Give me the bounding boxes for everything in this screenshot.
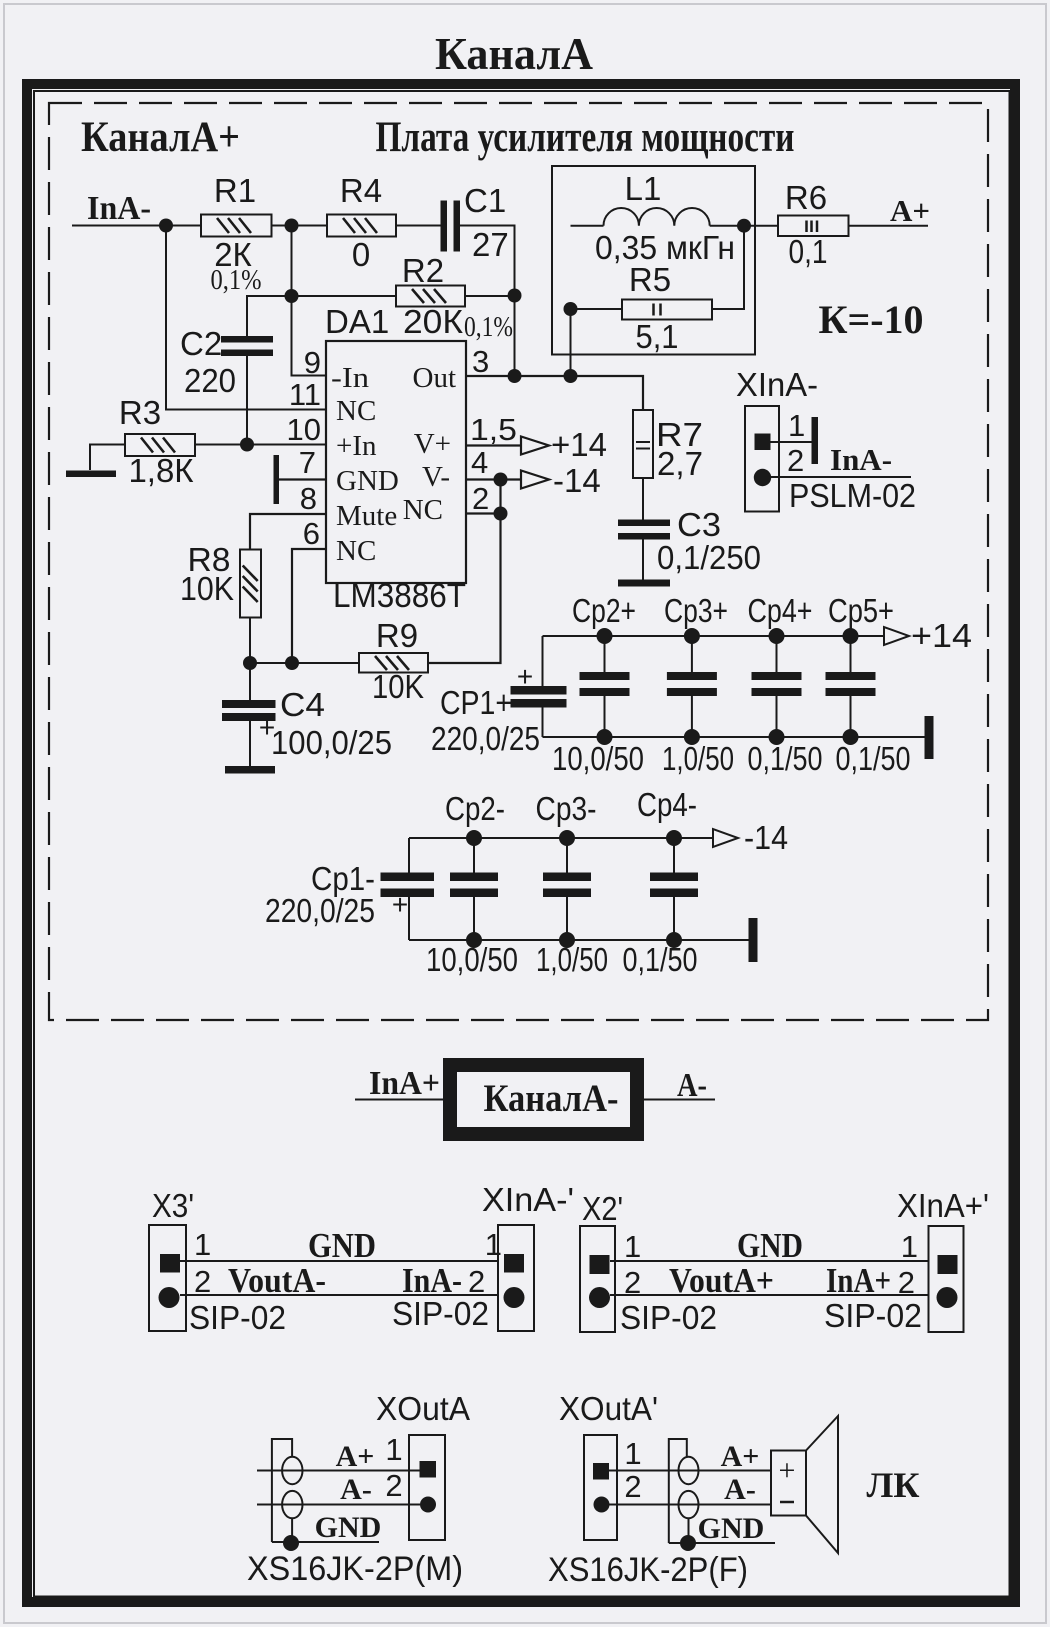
svg-text:GND: GND — [308, 1226, 376, 1265]
capacitor Cp3- — [566, 838, 568, 873]
svg-text:1: 1 — [194, 1227, 211, 1262]
svg-text:Cp4-: Cp4- — [637, 786, 697, 823]
pin 1 square XOutA — [420, 1461, 437, 1478]
wire +In row — [195, 444, 326, 446]
svg-text:C1: C1 — [464, 182, 506, 219]
wire R4 to C1 — [396, 225, 441, 227]
pin 2 circle XOutA — [420, 1497, 436, 1513]
svg-text:C2: C2 — [180, 325, 222, 362]
svg-text:20К: 20К — [403, 303, 464, 340]
svg-text:XInA-: XInA- — [736, 366, 818, 403]
svg-text:Cp2-: Cp2- — [445, 790, 505, 827]
wire Out up into box — [570, 309, 572, 376]
svg-text:SIP-02: SIP-02 — [620, 1299, 717, 1336]
svg-text:4: 4 — [471, 445, 488, 480]
svg-text:R4: R4 — [340, 172, 382, 209]
svg-text:V-: V- — [422, 461, 450, 493]
wire C4 to ground — [249, 721, 251, 766]
node junction R5-L1 left — [564, 302, 578, 316]
wire V- pin — [466, 478, 521, 480]
svg-text:PSLM-02: PSLM-02 — [789, 477, 916, 514]
svg-text:+: + — [779, 1454, 796, 1487]
node junction InA- — [159, 219, 173, 233]
wire V+ pin — [466, 444, 521, 446]
arrow -14 rail — [713, 829, 738, 847]
wire A- — [644, 1099, 715, 1101]
wire to R9 — [250, 662, 359, 664]
svg-text:LM3886T: LM3886T — [333, 577, 466, 615]
speaker horn — [806, 1416, 838, 1553]
svg-text:0,1%: 0,1% — [464, 312, 513, 343]
svg-text:A+: A+ — [336, 1440, 375, 1473]
svg-text:КаналА+: КаналА+ — [81, 114, 240, 161]
svg-text:+14: +14 — [911, 617, 972, 654]
wire A+ XOutA — [257, 1470, 420, 1472]
svg-text:2: 2 — [468, 1264, 485, 1299]
svg-text:Mute: Mute — [336, 500, 397, 532]
svg-text:-In: -In — [331, 362, 370, 394]
wire VoutA+ to InA+ — [610, 1294, 928, 1296]
node junction R2-C1 — [508, 289, 522, 303]
svg-text:5,1: 5,1 — [636, 318, 679, 355]
wire GND XOutA' — [669, 1542, 775, 1544]
ground R3 — [66, 471, 116, 478]
svg-text:VoutA-: VoutA- — [228, 1261, 326, 1300]
svg-text:A-: A- — [724, 1473, 756, 1506]
svg-text:10K: 10K — [372, 668, 424, 705]
svg-text:10K: 10K — [180, 570, 234, 607]
capacitor C1 — [441, 201, 448, 252]
svg-text:GND: GND — [336, 465, 399, 497]
wire C2 bottom to +In — [246, 356, 248, 445]
capacitor CP1+ — [542, 636, 544, 686]
svg-text:NC: NC — [403, 494, 443, 526]
svg-text:V+: V+ — [414, 428, 451, 460]
svg-text:C3: C3 — [677, 506, 721, 543]
svg-text:GND: GND — [737, 1226, 803, 1265]
pin 2 circle X2' — [589, 1287, 610, 1308]
svg-text:0,1/250: 0,1/250 — [657, 539, 761, 576]
female socket shell XS16JK-2P(F) — [669, 1439, 687, 1543]
svg-text:0,1/50: 0,1/50 — [836, 740, 911, 777]
wire R1 junction down — [291, 226, 293, 297]
wire step to C2 top — [247, 296, 292, 336]
svg-text:R2: R2 — [402, 252, 444, 289]
svg-text:11: 11 — [289, 377, 321, 412]
svg-text:2: 2 — [787, 443, 804, 478]
capacitor C4 — [249, 663, 251, 700]
wire to R2 left — [292, 295, 397, 297]
wire C1 right, corner down to R2/Out — [460, 226, 515, 377]
svg-text:27: 27 — [472, 226, 509, 263]
svg-text:1,0/50: 1,0/50 — [536, 941, 608, 978]
wire GND pin — [279, 478, 326, 480]
wire InA+ — [355, 1099, 443, 1101]
pin 1 square X3' — [160, 1254, 180, 1273]
svg-text:1: 1 — [624, 1436, 641, 1471]
pin 2 circle XOutA' — [594, 1497, 610, 1513]
svg-text:L1: L1 — [625, 170, 662, 207]
svg-text:8: 8 — [300, 481, 317, 516]
svg-text:10,0/50: 10,0/50 — [552, 740, 644, 777]
svg-text:10: 10 — [287, 412, 321, 447]
svg-text:Cp3+: Cp3+ — [664, 592, 728, 629]
svg-text:CP1+: CP1+ — [440, 684, 512, 721]
svg-text:Cp3-: Cp3- — [536, 790, 597, 827]
svg-text:1,5: 1,5 — [470, 412, 517, 447]
wire Out pin to R7 corner — [466, 376, 643, 410]
pin 2 circle X3' — [159, 1287, 180, 1308]
node junction L1-R5 right — [737, 219, 751, 233]
svg-text:1: 1 — [901, 1229, 918, 1264]
pin 1 square XInA-' — [504, 1254, 524, 1273]
svg-text:GND: GND — [698, 1512, 765, 1545]
svg-text:InA+: InA+ — [369, 1065, 440, 1102]
inductor L1 — [571, 225, 604, 227]
pin 2 circle XInA-' — [504, 1287, 525, 1308]
pin 1 square X2' — [590, 1255, 610, 1274]
svg-text:R6: R6 — [785, 179, 827, 216]
svg-text:1,0/50: 1,0/50 — [662, 740, 734, 777]
wire +14 bottom rail — [543, 736, 925, 738]
arrow -14 — [521, 471, 549, 489]
capacitor Cp2+ — [604, 636, 606, 672]
svg-text:VoutA+: VoutA+ — [669, 1261, 774, 1300]
dashed board border — [49, 103, 988, 1020]
pin 2 circle XInA+' — [937, 1287, 958, 1308]
svg-text:X2': X2' — [582, 1190, 623, 1227]
svg-text:X3': X3' — [152, 1187, 194, 1224]
capacitor Cp5+ — [850, 636, 852, 672]
resistor R8 — [240, 550, 261, 618]
L1 R5 output network box — [552, 166, 755, 355]
svg-text:-14: -14 — [744, 819, 788, 856]
wire A- XOutA — [257, 1504, 420, 1506]
node junction Out-L1 — [564, 369, 578, 383]
wire InA- to pin11 — [166, 226, 326, 410]
svg-text:C4: C4 — [280, 686, 325, 723]
svg-text:+: + — [392, 889, 408, 920]
wire XInA- pin2 — [771, 476, 911, 478]
svg-text:2: 2 — [898, 1265, 915, 1300]
wire A+ XOutA' — [609, 1470, 771, 1472]
wire GND XOutA — [272, 1541, 379, 1543]
svg-text:+In: +In — [336, 430, 377, 462]
svg-text:NC: NC — [336, 395, 376, 427]
svg-text:0: 0 — [352, 236, 370, 273]
svg-text:A+: A+ — [890, 193, 930, 228]
svg-text:NC: NC — [336, 535, 376, 567]
svg-text:+: + — [517, 661, 533, 692]
wire GND X2' to XInA+' — [610, 1260, 928, 1262]
capacitor Cp2- — [473, 838, 475, 873]
svg-text:0,1: 0,1 — [789, 233, 828, 270]
svg-text:0,1/50: 0,1/50 — [623, 941, 698, 978]
wire InA- input — [72, 225, 201, 227]
svg-text:0,1%: 0,1% — [211, 265, 262, 296]
svg-text:КаналА-: КаналА- — [484, 1077, 619, 1120]
wire -14 bottom rail — [409, 939, 749, 941]
svg-text:9: 9 — [304, 345, 321, 380]
svg-text:220: 220 — [184, 362, 236, 399]
svg-text:2: 2 — [385, 1468, 402, 1503]
wire R5 right up to L1 — [712, 226, 744, 309]
svg-text:220,0/25: 220,0/25 — [265, 892, 375, 929]
wire -14 top rail — [409, 837, 713, 839]
arrow +14 rail — [884, 627, 909, 645]
svg-text:1: 1 — [385, 1432, 402, 1467]
wire XInA- pin1 — [771, 441, 813, 443]
svg-text:XInA+': XInA+' — [897, 1187, 989, 1224]
wire R3 left to ground — [90, 445, 125, 471]
pin 2 circle XInA- — [754, 469, 771, 486]
svg-text:Плата усилителя мощности: Плата усилителя мощности — [376, 114, 795, 161]
wire R6 to A+ — [849, 225, 929, 227]
capacitor Cp3+ — [691, 636, 693, 672]
wire R1 to R4 — [272, 225, 328, 227]
node junction R8-C4 — [243, 656, 257, 670]
resistor R9 — [359, 653, 428, 673]
resistor R2 — [396, 286, 465, 307]
pin 1 square XOutA' — [593, 1463, 609, 1480]
rail terminator bar — [749, 918, 758, 962]
resistor R1 — [201, 215, 272, 237]
wire R5 left — [571, 308, 623, 310]
svg-text:1: 1 — [485, 1227, 502, 1262]
svg-text:-14: -14 — [553, 462, 601, 499]
node junction R1-R4 — [285, 219, 299, 233]
svg-text:R5: R5 — [629, 261, 671, 298]
svg-text:Cp5+: Cp5+ — [828, 592, 894, 629]
svg-text:InA-: InA- — [87, 190, 151, 227]
ground C4 — [225, 766, 275, 774]
svg-text:10,0/50: 10,0/50 — [426, 941, 518, 978]
node GND dot — [283, 1535, 299, 1551]
svg-text:100,0/25: 100,0/25 — [271, 724, 392, 761]
svg-text:R1: R1 — [214, 172, 256, 209]
node junction NC2 — [494, 507, 508, 521]
svg-text:A-: A- — [340, 1473, 372, 1506]
svg-text:InA-: InA- — [830, 442, 892, 477]
capacitor Cp4- — [673, 838, 675, 873]
node junction -In net — [285, 289, 299, 303]
capacitor C2 — [221, 336, 273, 343]
svg-text:+14: +14 — [551, 426, 607, 463]
wire A- XOutA' — [609, 1504, 771, 1506]
svg-text:1,8К: 1,8К — [128, 452, 194, 489]
svg-text:7: 7 — [299, 445, 316, 480]
svg-text:SIP-02: SIP-02 — [824, 1297, 922, 1334]
node junction Out-C1 — [508, 369, 522, 383]
arrow +14 — [521, 437, 549, 455]
speaker ЛК body — [771, 1451, 806, 1516]
svg-text:ЛК: ЛК — [867, 1465, 920, 1505]
pin 1 square XInA+' — [938, 1255, 958, 1274]
node junction V- — [494, 473, 508, 487]
svg-text:КаналА: КаналА — [435, 28, 593, 79]
svg-text:SIP-02: SIP-02 — [189, 1299, 286, 1336]
svg-text:XS16JK-2P(M): XS16JK-2P(M) — [247, 1550, 463, 1588]
pin 1 square XInA- — [755, 434, 771, 451]
svg-text:R9: R9 — [376, 617, 418, 654]
svg-text:Out: Out — [413, 362, 457, 394]
svg-text:XOutA': XOutA' — [559, 1390, 658, 1427]
svg-text:1: 1 — [788, 408, 805, 443]
rail terminator bar — [925, 716, 934, 759]
resistor R5 — [622, 300, 712, 320]
svg-text:A-: A- — [677, 1067, 707, 1104]
svg-text:XInA-': XInA-' — [482, 1181, 574, 1218]
svg-text:6: 6 — [303, 516, 320, 551]
resistor R6 — [778, 216, 849, 237]
resistor R4 — [327, 215, 396, 237]
capacitor Cp4+ — [776, 636, 778, 672]
wire R7 to C3 — [642, 478, 644, 520]
svg-text:GND: GND — [315, 1511, 382, 1544]
capacitor Cp1- — [408, 838, 410, 873]
node junction pin6-R9 — [285, 656, 299, 670]
ground C3 — [618, 580, 670, 587]
ground symbol at GND pin — [274, 455, 280, 504]
svg-text:2: 2 — [472, 481, 489, 516]
svg-text:0,1/50: 0,1/50 — [748, 740, 823, 777]
node junction +In — [240, 438, 254, 452]
svg-text:A+: A+ — [721, 1440, 760, 1473]
svg-text:XOutA: XOutA — [376, 1390, 470, 1427]
wire C3 to ground — [642, 540, 644, 581]
mating pin bar — [812, 417, 819, 464]
wire pin9 — [292, 296, 327, 376]
wire NC pin6 down — [292, 549, 326, 663]
block КаналА- — [450, 1065, 637, 1134]
op-amp DA1 LM3886T body — [326, 341, 466, 583]
capacitor C3 — [618, 520, 670, 527]
svg-text:R3: R3 — [119, 394, 161, 431]
male plug shell XS16JK-2P(M) — [272, 1439, 292, 1542]
svg-text:XS16JK-2P(F): XS16JK-2P(F) — [548, 1551, 748, 1589]
resistor R3 — [125, 434, 195, 456]
wire GND X3' to XInA-' — [180, 1260, 498, 1262]
wire NC2 down to R9 — [428, 480, 501, 664]
node GND dot — [680, 1535, 696, 1551]
wire R2 right — [465, 295, 515, 297]
wire Mute pin to R8 — [250, 514, 326, 550]
svg-text:2: 2 — [624, 1469, 641, 1504]
wire R8 bottom — [249, 618, 251, 664]
svg-text:2: 2 — [194, 1264, 211, 1299]
svg-text:2,7: 2,7 — [657, 445, 703, 482]
wire +14 top rail — [543, 635, 885, 637]
svg-text:SIP-02: SIP-02 — [392, 1295, 489, 1332]
svg-text:InA+: InA+ — [826, 1261, 891, 1300]
svg-text:1: 1 — [624, 1229, 641, 1264]
svg-text:220,0/25: 220,0/25 — [431, 720, 540, 757]
svg-text:3: 3 — [472, 344, 489, 379]
wire NC pin2 — [466, 512, 501, 514]
svg-text:К=-10: К=-10 — [818, 297, 923, 342]
resistor R7 — [633, 410, 653, 478]
wire VoutA- to InA- — [180, 1294, 498, 1296]
svg-text:DA1: DA1 — [325, 303, 389, 340]
svg-text:Cp2+: Cp2+ — [572, 592, 636, 629]
svg-text:Cp4+: Cp4+ — [748, 592, 813, 629]
